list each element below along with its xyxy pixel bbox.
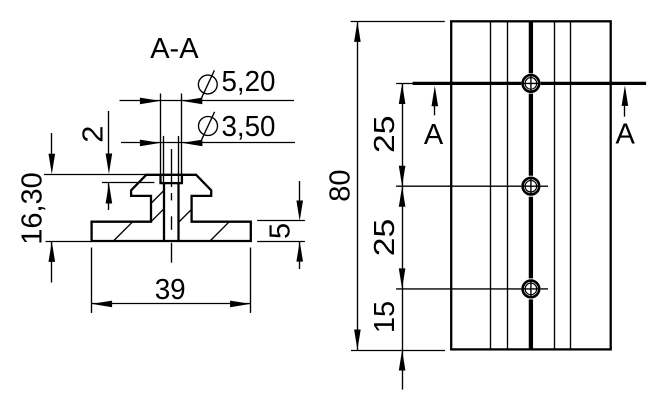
extension lines 39 <box>91 248 93 313</box>
svg-text:16,30: 16,30 <box>17 172 49 245</box>
svg-text:25: 25 <box>369 115 401 153</box>
extension line groove floor <box>102 182 154 184</box>
diameter symbol D5.20 <box>198 75 217 94</box>
extension lines D3.50 <box>163 136 165 183</box>
flange edge right <box>570 21 572 349</box>
svg-text:5,20: 5,20 <box>222 66 276 98</box>
svg-text:A: A <box>616 118 636 150</box>
svg-text:25: 25 <box>369 219 401 257</box>
hole 1 center marks <box>530 74 532 93</box>
hole 3 <box>523 281 540 298</box>
dimension 2 line <box>108 111 110 155</box>
hatch left base <box>113 222 132 241</box>
section arrow right <box>622 85 629 106</box>
extension lines D5.20 <box>160 94 162 175</box>
center slot bar <box>529 21 533 73</box>
top face edge right <box>554 21 556 349</box>
top face edge left <box>507 21 509 349</box>
hole left wall <box>163 183 165 241</box>
section line A-A <box>396 83 413 85</box>
hole 2 <box>523 178 540 195</box>
plan view body <box>451 21 611 349</box>
svg-text:80: 80 <box>325 169 357 201</box>
hatch right stem <box>179 209 192 222</box>
hole 3 axis extension <box>396 288 521 290</box>
flange edge left <box>490 21 492 349</box>
hole 1 <box>523 75 540 92</box>
diameter symbol D3.50 <box>199 117 218 136</box>
svg-text:A: A <box>424 119 444 151</box>
hole 3 center marks <box>530 280 532 299</box>
dimension 39 line <box>92 303 251 305</box>
counterbore groove <box>161 175 182 183</box>
svg-text:2: 2 <box>77 126 109 143</box>
svg-text:3,50: 3,50 <box>222 111 276 143</box>
hatch right base <box>210 222 229 241</box>
extension line base bottom left <box>46 241 92 243</box>
dimension 5 line <box>299 181 301 201</box>
section arrow left <box>432 86 439 107</box>
chain dimension line <box>402 84 404 351</box>
hole right wall <box>177 183 179 241</box>
hole 2 axis extension <box>396 185 521 187</box>
dimension 80 line <box>357 21 359 350</box>
extension line top surface <box>44 174 146 176</box>
T-nut section outline <box>92 175 251 241</box>
svg-text:5: 5 <box>265 223 297 239</box>
svg-text:15: 15 <box>369 301 401 333</box>
extension line top <box>351 21 445 23</box>
svg-text:39: 39 <box>155 274 186 306</box>
svg-text:A-A: A-A <box>150 33 199 65</box>
hatch left flange <box>151 190 164 203</box>
extension lines 5 <box>257 220 305 222</box>
dimension 16,30 line <box>51 133 53 155</box>
hatch left stem <box>151 209 164 222</box>
dimension line D3.50 <box>121 142 295 144</box>
dimension line D5.20 <box>120 100 295 102</box>
hole 2 center marks <box>530 177 532 196</box>
extension line bottom <box>351 350 445 352</box>
centerline <box>171 149 173 187</box>
